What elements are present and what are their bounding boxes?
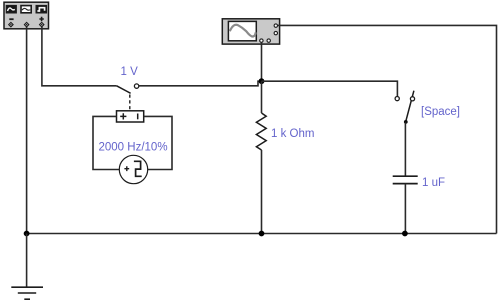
wire: capacitor C1 down to bottom rail xyxy=(404,184,406,234)
ground xyxy=(11,287,43,299)
resistor R1 xyxy=(256,81,266,233)
capacitor C1 xyxy=(393,176,418,183)
junction: bottom left xyxy=(24,231,30,237)
wire: bottom rail xyxy=(27,233,497,235)
dashed control line from S1 to battery V1 xyxy=(129,95,131,111)
wire: generator + terminal down then right to switch S1 xyxy=(42,27,117,86)
battery V1 xyxy=(117,111,144,122)
wire: switch S1 to junction A (with jog) xyxy=(139,81,262,86)
junction: resistor bottom xyxy=(259,231,265,237)
wire: generator COM terminal down to bottom-left junction xyxy=(26,27,28,234)
clock source V2 (2000 Hz/10%) xyxy=(119,155,147,183)
junction: capacitor bottom xyxy=(402,231,408,237)
svg-text:1 k Ohm: 1 k Ohm xyxy=(271,128,314,140)
function generator XFG1 xyxy=(4,2,49,29)
wire: switch S2 down to capacitor C1 xyxy=(404,123,406,177)
wire: junction A to switch S2 xyxy=(262,81,398,96)
oscilloscope XSC1 xyxy=(222,19,279,44)
switch S2 [Space] xyxy=(395,91,415,124)
wire: battery left lead xyxy=(93,116,119,169)
svg-text:1 V: 1 V xyxy=(121,66,139,78)
svg-text:1 uF: 1 uF xyxy=(422,177,445,189)
switch S1 (voltage-controlled, 1 V) xyxy=(117,84,139,93)
wire: oscilloscope right terminal to right rail xyxy=(278,25,497,233)
svg-text:[Space]: [Space] xyxy=(421,106,460,118)
junction A xyxy=(259,78,265,84)
wire: bottom-left junction to ground xyxy=(26,234,28,288)
wire: oscilloscope probe down to junction A xyxy=(261,42,263,81)
wire: battery right lead xyxy=(144,116,172,169)
svg-text:2000 Hz/10%: 2000 Hz/10% xyxy=(99,141,168,153)
